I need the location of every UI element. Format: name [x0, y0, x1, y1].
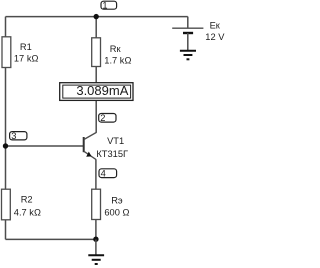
wire bottom rail	[6, 238, 97, 240]
svg-text:1.7 kΩ: 1.7 kΩ	[104, 55, 131, 65]
svg-text:КТ315Г: КТ315Г	[96, 149, 128, 159]
resistor R2	[2, 189, 11, 220]
svg-text:R1: R1	[20, 42, 32, 52]
ground at bottom rail: bar 2	[92, 259, 101, 261]
svg-text:3.089mA: 3.089mA	[76, 83, 128, 98]
wire ammeter to collector	[95, 100, 97, 132]
battery Ek long positive plate	[172, 27, 203, 29]
ammeter U1 inner box	[63, 85, 131, 98]
svg-text:4: 4	[101, 168, 106, 178]
svg-text:3: 3	[11, 131, 16, 141]
svg-text:VT1: VT1	[107, 136, 124, 146]
wire emitter to Re and bottom rail	[95, 159, 97, 239]
junction bottom rail dot	[93, 237, 98, 242]
svg-text:1: 1	[102, 0, 107, 10]
junction node 1 dot	[94, 14, 99, 19]
svg-text:Rк: Rк	[110, 44, 122, 54]
ground at battery: bar 1	[180, 50, 196, 52]
transistor VT1 emitter lead	[84, 151, 96, 159]
wire middle branch upper (node1 to ammeter through Rk)	[95, 17, 97, 83]
ground at bottom rail: stub	[95, 239, 97, 254]
battery Ek lead from top rail	[187, 17, 189, 29]
wire top rail from left wire to battery	[6, 16, 188, 18]
resistor Rk	[92, 38, 101, 67]
svg-text:Ек: Ек	[210, 21, 221, 31]
node 1 label box	[101, 1, 117, 9]
wire base (node 3 to VT1 base)	[6, 145, 84, 147]
transistor VT1 emitter arrowhead	[86, 152, 91, 157]
ammeter U1 outer box	[60, 83, 133, 101]
battery Ek short negative plate	[183, 32, 193, 34]
wire left vertical (node1 to bottom rail)	[5, 17, 7, 240]
ground at battery: bar 2	[184, 54, 193, 56]
transistor VT1 collector lead	[84, 133, 96, 140]
node 3 label box	[10, 132, 27, 140]
svg-text:600 Ω: 600 Ω	[104, 207, 129, 217]
node 2 label box	[99, 114, 116, 123]
transistor Q1 VT1 base bar	[83, 137, 85, 152]
svg-text:4.7 kΩ: 4.7 kΩ	[14, 207, 41, 217]
ground at bottom rail: bar 3	[95, 263, 98, 265]
ground at bottom rail: bar 1	[88, 254, 104, 256]
svg-text:12 V: 12 V	[205, 32, 225, 42]
resistor Re	[92, 189, 101, 219]
ground at battery: bar 3	[187, 58, 190, 60]
junction node 3 dot	[3, 143, 8, 148]
svg-text:R2: R2	[21, 195, 33, 205]
node 4 label box	[99, 169, 117, 178]
svg-text:Rэ: Rэ	[111, 195, 123, 205]
svg-text:2: 2	[100, 113, 105, 123]
svg-text:17 kΩ: 17 kΩ	[14, 54, 39, 64]
resistor R1	[2, 37, 11, 68]
battery Ek lead to ground	[187, 33, 189, 50]
